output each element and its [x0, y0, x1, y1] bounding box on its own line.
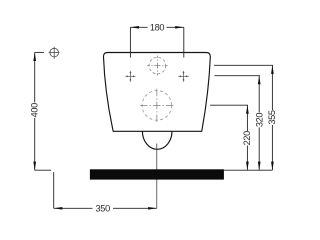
fixing hole right [178, 71, 188, 82]
extension line 320 [215, 75, 261, 77]
datum symbol [49, 47, 60, 59]
floor slab bar [90, 169, 224, 179]
inlet circle [149, 57, 166, 74]
dimension 350 lines [54, 207, 157, 209]
svg-text:400: 400 [29, 103, 39, 118]
dimension 400 arrow bottom [33, 162, 36, 171]
toilet body outline [103, 53, 210, 132]
outlet arc [142, 131, 172, 149]
svg-text:350: 350 [96, 203, 111, 213]
svg-text:180: 180 [150, 22, 165, 32]
fixing hole left [125, 71, 135, 82]
dimension 320 arrow top [258, 76, 261, 85]
dimension 350 arrow right [148, 207, 157, 210]
dimension 400 lines [35, 52, 51, 170]
dimension 180 lines [130, 27, 183, 57]
dimension 220 arrow bottom [246, 162, 249, 171]
dimension 355 arrow top [271, 65, 274, 74]
svg-text:355: 355 [267, 110, 277, 125]
dimension 320 line [258, 76, 260, 171]
dimension 180 arrow left [130, 26, 139, 29]
dimension 400 arrow top [33, 52, 36, 61]
dimension 320 arrow bottom [258, 162, 261, 171]
dimension 350 arrow left [54, 207, 63, 210]
floor line right [224, 169, 272, 171]
dimension 220 line [246, 105, 248, 170]
centerline vertical [156, 144, 158, 209]
svg-text:320: 320 [254, 113, 264, 128]
extension line 355 [214, 64, 273, 66]
dimension 355 line [271, 65, 273, 170]
dimension 180 arrow right [175, 26, 184, 29]
drain circle [142, 91, 172, 121]
extension line 220 [210, 104, 248, 106]
svg-text:220: 220 [242, 131, 252, 146]
inlet crosshair [147, 56, 167, 76]
dimension 220 arrow top [246, 105, 249, 114]
dimension 350 extension left [53, 172, 55, 208]
dimension 355 arrow bottom [271, 162, 274, 171]
drain crosshair [139, 89, 174, 122]
